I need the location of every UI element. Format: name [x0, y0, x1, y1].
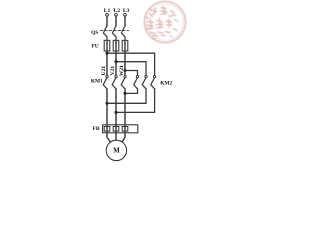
junction dot phase2 output: [114, 111, 117, 114]
wire phase2 through FR heater: [115, 125, 117, 133]
contactor KM2 pole 3: [151, 78, 155, 89]
KM2 contact terminal 3: [153, 75, 155, 77]
wire KM1 pole1 output down to FR: [106, 89, 108, 125]
KM2 contact terminal 2: [145, 75, 147, 77]
wire branch L3 to KM2 left: [125, 71, 138, 76]
KM1 contact terminal 2: [115, 75, 117, 77]
wire motor lead U: [107, 133, 111, 143]
svg-text:KM2: KM2: [160, 80, 172, 86]
wire phase3 fuse to KM1 contact: [124, 51, 126, 75]
wire phase1 through FR heater: [106, 125, 108, 133]
motor M circle: [106, 140, 126, 160]
wire L2 drop to QS: [115, 17, 117, 26]
svg-text:QS: QS: [91, 30, 98, 36]
junction dot L3 branch: [123, 69, 126, 72]
relay FR heater 3: [122, 127, 128, 132]
wire KM2 pole2 output hook to phase1: [107, 89, 146, 104]
wire through fuse 2: [115, 40, 117, 51]
wire branch L2 to KM2 middle: [116, 62, 146, 75]
svg-text:L2: L2: [114, 8, 121, 14]
switch QS pole 3: [121, 26, 125, 40]
junction dot phase1 output: [105, 102, 108, 105]
svg-text:L3: L3: [123, 8, 130, 14]
wire L3 drop to QS: [124, 17, 126, 26]
svg-text:U21: U21: [101, 66, 107, 76]
contactor KM2 pole 2: [142, 78, 146, 89]
KM1 contact terminal 1: [106, 75, 108, 77]
wire phase1 fuse to KM1 contact: [106, 51, 108, 75]
relay FR box: [103, 125, 138, 133]
QS linkage dashed: [100, 30, 128, 32]
fuse FU 1: [104, 40, 110, 51]
fuse FU 3: [122, 40, 128, 51]
svg-text:KM1: KM1: [91, 78, 103, 84]
wire KM1 pole2 output down to FR: [115, 89, 117, 125]
svg-text:V21: V21: [110, 66, 116, 76]
wire KM2 pole1 output hook to phase3: [125, 89, 138, 94]
wire through fuse 1: [106, 40, 108, 51]
wire phase2 fuse to KM1 contact: [115, 51, 117, 75]
contactor KM2 pole 1: [134, 78, 138, 89]
terminal L2: [115, 13, 118, 16]
wire L1 drop to QS: [106, 17, 108, 26]
junction dot L2 branch: [114, 60, 117, 63]
svg-text:M: M: [113, 147, 120, 155]
svg-text:FU: FU: [91, 43, 98, 49]
contactor KM1 pole 1: [103, 78, 107, 89]
terminal L3: [124, 13, 127, 16]
fuse FU 2: [113, 40, 119, 51]
svg-text:FR: FR: [93, 126, 100, 132]
KM1 contact terminal 3: [124, 75, 126, 77]
junction dot phase3 output: [123, 92, 126, 95]
svg-text:W21: W21: [119, 65, 125, 76]
relay FR heater 1: [104, 127, 110, 132]
contactor KM1 pole 2: [112, 78, 116, 89]
wire motor lead V: [115, 133, 117, 140]
wire KM2 pole3 output hook to phase2: [116, 89, 155, 113]
KM2 contact terminal 1: [136, 75, 138, 77]
wire KM1 pole3 output down to FR: [124, 89, 126, 125]
watermark stamp: [144, 1, 185, 42]
switch QS pole 2: [112, 26, 116, 40]
contactor KM1 pole 3: [121, 78, 125, 89]
wire branch L1 to KM2 right: [107, 53, 155, 75]
wire through fuse 3: [124, 40, 126, 51]
terminal L1: [106, 13, 109, 16]
switch QS pole 1: [103, 26, 107, 40]
relay FR heater 2: [113, 127, 119, 132]
wire phase3 through FR heater: [124, 125, 126, 133]
junction dot L1 branch: [105, 52, 108, 55]
svg-text:L1: L1: [104, 8, 111, 14]
wire motor lead W: [122, 133, 125, 143]
